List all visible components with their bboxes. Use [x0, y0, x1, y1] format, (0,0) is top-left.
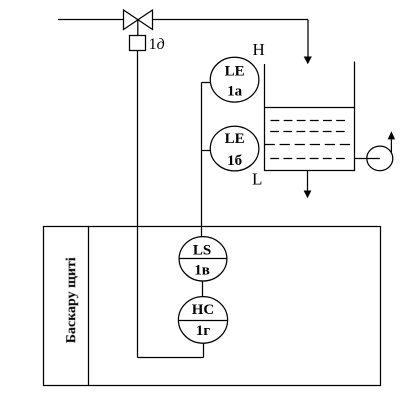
wire: inlet pipe right segment [153, 19, 309, 21]
valve 1д body (bowtie) [124, 10, 153, 30]
instrument HC 1г circle [178, 297, 227, 344]
svg-text:1г: 1г [196, 323, 211, 339]
arrowhead: inlet flow into tank [304, 57, 312, 65]
dashed level line 2 [270, 131, 345, 133]
arrowhead: outflow [304, 191, 312, 199]
dashed level line 1 [271, 120, 346, 122]
pump P1 circle [367, 146, 393, 171]
wire: stub from LE 1a to signal line [202, 82, 213, 84]
divider line of HC 1г [179, 320, 228, 322]
svg-text:LE: LE [225, 64, 245, 80]
wire: tank outflow drop [307, 171, 309, 191]
wire: bottom horizontal control line [138, 357, 204, 359]
instrument LS 1в circle [179, 237, 227, 281]
wire: valve stem to actuator square [137, 20, 139, 36]
wire: vertical signal line down to LS [201, 83, 203, 237]
svg-text:HC: HC [192, 302, 215, 318]
tank walls [265, 62, 355, 171]
svg-text:H: H [253, 40, 265, 59]
instrument LE 1б circle [210, 126, 259, 171]
wire: stub from LE 1б to signal line [202, 150, 213, 152]
svg-text:1б: 1б [227, 153, 242, 169]
dashed level line 4 [270, 158, 345, 160]
svg-text:1в: 1в [194, 262, 210, 278]
svg-text:LE: LE [225, 131, 245, 147]
svg-text:1а: 1а [227, 84, 243, 100]
wire: inlet drop into tank [307, 20, 309, 57]
dashed level line 3 [265, 144, 351, 146]
wire: stub up to HC 1г bottom [203, 343, 205, 358]
wire: pump discharge riser [390, 139, 392, 153]
divider line of LS 1в [179, 258, 227, 260]
svg-text:1д: 1д [149, 36, 165, 53]
svg-text:LS: LS [193, 242, 211, 258]
control panel box [44, 227, 381, 386]
instrument LE 1a circle [210, 57, 259, 102]
actuator square of valve 1д [130, 36, 146, 51]
svg-text:L: L [252, 170, 262, 189]
control panel label column divider [88, 227, 90, 386]
liquid surface line in tank [265, 107, 355, 109]
wire: LS to HC link [202, 281, 204, 297]
wire: inlet pipe left segment [58, 19, 124, 21]
svg-text:Баскару щиті: Баскару щиті [64, 257, 79, 343]
wire: pipe from tank into pump center [355, 158, 380, 160]
arrowhead: pump discharge [388, 131, 395, 139]
wire: control line from actuator down [137, 51, 139, 358]
